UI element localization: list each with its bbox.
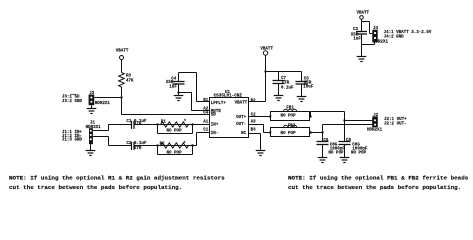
- svg-text:X7R: X7R: [134, 147, 142, 151]
- svg-text:NO POP: NO POP: [281, 115, 297, 119]
- svg-text:C1: C1: [126, 120, 132, 124]
- svg-text:VBATT: VBATT: [357, 11, 370, 15]
- svg-text:OUT+: OUT+: [236, 116, 247, 120]
- svg-text:*: *: [184, 120, 187, 125]
- svg-text:IN+: IN+: [211, 124, 219, 128]
- svg-text:R3: R3: [126, 75, 132, 79]
- svg-text:FB2: FB2: [288, 124, 296, 128]
- svg-text:NO POP: NO POP: [167, 151, 183, 155]
- svg-text:C2: C2: [251, 114, 257, 118]
- svg-text:HDR3X1: HDR3X1: [86, 126, 102, 130]
- svg-text:VBATT: VBATT: [260, 48, 273, 52]
- svg-text:NO POP: NO POP: [328, 151, 344, 155]
- svg-text:NO POP: NO POP: [167, 129, 183, 133]
- svg-text:C3: C3: [353, 28, 359, 32]
- svg-text:NOTE: If using the optional R1: NOTE: If using the optional R1 & R2 gain…: [9, 174, 225, 181]
- svg-text:C4: C4: [203, 112, 209, 116]
- svg-text:HDR2X1: HDR2X1: [367, 129, 383, 133]
- svg-text:HDR2X1: HDR2X1: [373, 41, 389, 45]
- svg-text:47K: 47K: [126, 80, 134, 84]
- svg-text:J2:1 OUT+: J2:1 OUT+: [384, 118, 407, 122]
- svg-text:cut the trace between the pads: cut the trace between the pads before po…: [288, 184, 461, 191]
- svg-text:0.1uF: 0.1uF: [134, 142, 147, 146]
- svg-text:C7: C7: [281, 77, 287, 81]
- svg-text:J1:3 GND: J1:3 GND: [62, 139, 83, 143]
- svg-text:1uF: 1uF: [353, 38, 361, 42]
- svg-text:J2:2 OUT-: J2:2 OUT-: [384, 122, 407, 126]
- svg-text:C6: C6: [323, 139, 329, 143]
- svg-text:J4: J4: [373, 27, 379, 31]
- svg-text:IN-: IN-: [211, 132, 219, 136]
- svg-text:NO POP: NO POP: [351, 151, 367, 155]
- svg-text:CS35L01-CNZ: CS35L01-CNZ: [214, 93, 243, 98]
- svg-text:NC: NC: [241, 132, 247, 136]
- svg-text:A3: A3: [251, 121, 257, 125]
- svg-text:R2: R2: [160, 143, 166, 147]
- svg-text:J4:2 GND: J4:2 GND: [384, 35, 405, 39]
- svg-text:X7R: X7R: [134, 123, 142, 127]
- svg-text:HDR2X1: HDR2X1: [95, 102, 111, 106]
- svg-text:A1: A1: [203, 121, 209, 125]
- svg-text:X7R: X7R: [282, 82, 290, 86]
- svg-text:B2: B2: [251, 99, 257, 103]
- svg-text:OUT-: OUT-: [236, 123, 246, 127]
- svg-text:10uF: 10uF: [303, 85, 314, 89]
- svg-text:B1: B1: [203, 99, 209, 103]
- svg-text:J2: J2: [373, 114, 379, 118]
- svg-text:VBATT: VBATT: [116, 49, 129, 53]
- svg-text:J3: J3: [89, 92, 95, 96]
- svg-text:J3:2 GND: J3:2 GND: [62, 100, 83, 104]
- svg-text:NO POP: NO POP: [281, 132, 297, 136]
- svg-text:0.1uF: 0.1uF: [281, 86, 294, 90]
- svg-text:VBATT: VBATT: [235, 101, 248, 105]
- svg-text:FB1: FB1: [286, 107, 294, 111]
- svg-text:1uF: 1uF: [169, 86, 177, 90]
- svg-text:LPFLT+: LPFLT+: [211, 102, 227, 106]
- svg-text:B3: B3: [251, 129, 257, 133]
- svg-text:R1: R1: [161, 121, 167, 125]
- svg-text:SD: SD: [211, 114, 217, 118]
- svg-text:C2: C2: [126, 142, 132, 146]
- svg-text:NOTE: If using the optional FB: NOTE: If using the optional FB1 & FB2 fe…: [288, 174, 469, 181]
- svg-text:C1: C1: [203, 128, 209, 132]
- svg-text:C8: C8: [346, 139, 352, 143]
- svg-text:cut the trace between the pads: cut the trace between the pads before po…: [9, 184, 182, 191]
